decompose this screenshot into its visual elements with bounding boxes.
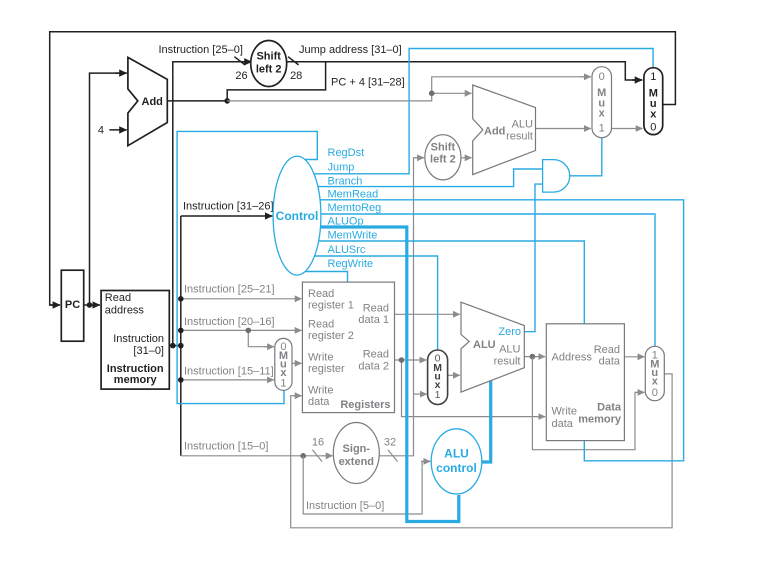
wire: PC+4 to branch adder and branch mux (227, 77, 591, 101)
wire: instruction [15-0] to sign-extend (181, 455, 303, 457)
svg-text:extend: extend (339, 456, 374, 468)
svg-text:1: 1 (435, 389, 441, 401)
branch mux (592, 67, 612, 138)
ALUSrc mux (428, 350, 448, 405)
node: tap 15-11 (178, 377, 184, 383)
registers (302, 282, 394, 413)
wire: read data to memtoreg mux input 1 (624, 356, 644, 358)
svg-text:PC: PC (65, 299, 80, 311)
svg-text:address: address (105, 304, 145, 316)
wire: jump mux output to PC (top loop) (50, 32, 676, 305)
wire: AND gate output to branch mux select (570, 138, 602, 176)
wire: instruction [25-0] vertical from instruction memory output up to shift left 2 (173, 62, 252, 346)
svg-text:Instruction [25–21]: Instruction [25–21] (184, 283, 275, 295)
svg-text:Shift: Shift (431, 141, 456, 153)
node: PC output junction (87, 302, 93, 308)
node: 20-16 branch junction (246, 328, 252, 334)
node: tap 20-16 (178, 328, 184, 334)
svg-text:Instruction [5–0]: Instruction [5–0] (306, 500, 384, 512)
wire: RegDst control signal loop to write-register mux select (177, 131, 317, 403)
svg-text:ALU: ALU (499, 343, 520, 355)
svg-text:Write: Write (308, 352, 333, 364)
svg-text:ALUSrc: ALUSrc (328, 244, 366, 256)
ALU control (431, 429, 482, 494)
svg-text:PC + 4 [31–28]: PC + 4 [31–28] (331, 77, 405, 89)
wire: ALUOp control signal to ALU control (297, 227, 459, 522)
wire: instruction memory output to bus (169, 345, 181, 347)
svg-text:x: x (652, 375, 659, 387)
node: ALU result junction (530, 354, 536, 360)
wire: PC+4 into branch Add top input (432, 92, 472, 94)
svg-text:Instruction [15–0]: Instruction [15–0] (184, 440, 268, 452)
svg-text:RegDst: RegDst (328, 147, 365, 159)
wire: instruction [20-16] branch to write-register mux input 0 (248, 330, 274, 346)
node: instruction output junction B (178, 343, 184, 349)
control unit (273, 156, 321, 275)
svg-text:Instruction [31–26]: Instruction [31–26] (183, 201, 274, 213)
wire: ALU result down to memtoreg mux input 0 (532, 357, 644, 450)
svg-text:Instruction [15–11]: Instruction [15–11] (184, 365, 274, 377)
svg-text:Read: Read (105, 292, 131, 304)
svg-text:Shift: Shift (256, 51, 281, 63)
svg-text:Instruction [20–16]: Instruction [20–16] (184, 316, 275, 328)
slash: 26-bit bus mark (234, 57, 245, 65)
node: tap 25-21 (178, 296, 184, 302)
wire: sign-extend output branch to ALUSrc mux input 1 (414, 393, 427, 395)
wire: PC output up to Add (90, 73, 127, 305)
node: instruction 15-0 junction (300, 453, 306, 459)
svg-text:register 1: register 1 (308, 300, 354, 312)
svg-text:Read: Read (363, 349, 389, 361)
svg-text:16: 16 (312, 437, 324, 449)
svg-text:register: register (308, 363, 345, 375)
svg-text:28: 28 (290, 70, 302, 82)
svg-text:Read: Read (363, 302, 389, 314)
svg-text:0: 0 (599, 71, 605, 83)
svg-text:Read: Read (308, 319, 334, 331)
svg-text:Address: Address (552, 351, 593, 363)
instruction memory (101, 291, 169, 390)
wire: instruction [15-11] to write-register mux input 1 (181, 379, 274, 381)
wire: instruction [31-26] into Control (181, 215, 272, 217)
svg-text:Jump: Jump (328, 162, 355, 174)
svg-text:Write: Write (308, 385, 333, 397)
svg-text:Registers: Registers (340, 399, 390, 411)
node: instruction output junction A (170, 343, 176, 349)
svg-text:Control: Control (276, 209, 319, 223)
svg-text:ALUOp: ALUOp (328, 215, 364, 227)
shift left 2 (jump) (251, 41, 287, 87)
wire: MemRead control signal to data memory read port (297, 200, 684, 461)
svg-text:left 2: left 2 (430, 153, 456, 165)
wire: instruction [25-21] to read register 1 (181, 298, 302, 300)
svg-text:result: result (494, 356, 521, 368)
wire: Jump control signal to jump mux select (297, 49, 653, 174)
svg-text:x: x (599, 108, 606, 120)
wire: write-register mux output to write register (292, 362, 302, 364)
svg-text:0: 0 (650, 121, 656, 133)
wire: jump address [31-0] from shift left 2 to jump mux input 1 (285, 62, 642, 80)
wire: instruction [20-16] to read register 2 (181, 329, 302, 331)
wire: memtoreg mux output writeback to registers write data (291, 374, 672, 528)
node: PC+4 branch junction (429, 91, 435, 97)
wire: Add output (167, 100, 227, 102)
svg-text:x: x (650, 109, 657, 121)
wire: ALUSrc mux output to ALU (448, 374, 460, 376)
svg-text:Read: Read (594, 344, 620, 356)
sign-extend (333, 423, 379, 484)
svg-text:Instruction [25–0]: Instruction [25–0] (159, 44, 243, 56)
svg-text:1: 1 (280, 377, 286, 389)
wire: instruction bus vertical (180, 216, 182, 456)
svg-text:result: result (506, 131, 533, 143)
svg-text:4: 4 (98, 125, 104, 137)
wire: ALU result to data memory address (524, 356, 545, 358)
wire: PC output to instruction memory read address (84, 304, 100, 306)
wire: sign-extend output up to shift left 2 (379, 158, 424, 456)
wire: RegWrite control signal to registers (297, 272, 348, 283)
svg-text:1: 1 (599, 123, 605, 135)
wire: Zero output of ALU to AND gate (524, 184, 542, 332)
svg-text:memory: memory (578, 414, 622, 426)
svg-text:memory: memory (114, 374, 158, 386)
wire: Branch control signal to AND gate (297, 169, 543, 187)
adder Add (PC+4) (128, 57, 167, 145)
wire: arrow into PC (50, 304, 60, 306)
svg-text:Read: Read (308, 288, 334, 300)
svg-text:RegWrite: RegWrite (328, 258, 374, 270)
svg-text:data: data (308, 396, 330, 408)
wire: ALU control output to ALU (481, 381, 491, 462)
svg-text:MemRead: MemRead (328, 189, 379, 201)
wire: MemtoReg control signal to memtoreg mux select (297, 214, 655, 346)
svg-text:control: control (436, 461, 477, 475)
wire: instruction [5-0] to ALU control (303, 456, 430, 514)
wire: read data 2 to ALUSrc mux input 0 (395, 359, 427, 361)
svg-text:Add: Add (484, 126, 505, 138)
svg-text:32: 32 (384, 437, 396, 449)
svg-text:Instruction: Instruction (113, 333, 164, 345)
svg-text:ALU: ALU (512, 119, 533, 131)
wire: branch mux output to jump mux input 0 (612, 128, 643, 130)
node: Add output junction (224, 98, 230, 104)
PC register (61, 270, 83, 341)
svg-text:26: 26 (235, 70, 247, 82)
svg-text:[31–0]: [31–0] (133, 345, 164, 357)
svg-text:left 2: left 2 (256, 63, 282, 75)
svg-text:Add: Add (142, 96, 163, 108)
svg-text:1: 1 (650, 71, 656, 83)
wire: branch Add result to branch mux input 1 (536, 128, 591, 130)
node: read data 2 junction (399, 357, 405, 363)
adder Add (branch target) (473, 85, 536, 175)
wire: PC+4 [31-28] up to jump address line (227, 62, 325, 101)
svg-text:ALU: ALU (444, 446, 469, 460)
svg-text:Write: Write (552, 406, 577, 418)
wire: shift left 2 output into branch Add (461, 157, 472, 159)
svg-text:Jump address [31–0]: Jump address [31–0] (299, 44, 402, 56)
slash: 32-bit bus mark (388, 450, 398, 462)
svg-text:Sign-: Sign- (343, 443, 371, 455)
wire: read data 2 down to data memory write data (402, 360, 546, 417)
wire: read data 1 to ALU (395, 313, 460, 315)
shift left 2 (branch) (425, 135, 461, 180)
wire: constant 4 into Add (109, 129, 126, 131)
svg-text:data: data (599, 356, 621, 368)
jump mux (644, 68, 663, 135)
svg-text:MemWrite: MemWrite (328, 230, 378, 242)
wire: MemWrite control signal to data memory write port (297, 241, 584, 324)
svg-text:0: 0 (652, 387, 658, 399)
slash: 28-bit bus mark (288, 57, 299, 65)
svg-text:Zero: Zero (498, 326, 521, 338)
slash: 16-bit bus mark (312, 450, 322, 462)
svg-text:Data: Data (597, 402, 622, 414)
svg-text:register 2: register 2 (308, 330, 354, 342)
wire: ALUSrc control signal to ALUSrc mux select (297, 256, 438, 350)
memtoreg mux (645, 346, 664, 400)
data memory (546, 324, 624, 441)
write-register mux (275, 338, 292, 390)
svg-text:data: data (552, 418, 574, 430)
AND gate (branch and zero) (543, 160, 570, 193)
svg-text:data 2: data 2 (358, 360, 389, 372)
svg-text:Branch: Branch (328, 175, 363, 187)
svg-text:ALU: ALU (473, 339, 496, 351)
svg-text:data 1: data 1 (358, 314, 389, 326)
ALU main (461, 302, 524, 392)
svg-text:MemtoReg: MemtoReg (328, 202, 382, 214)
